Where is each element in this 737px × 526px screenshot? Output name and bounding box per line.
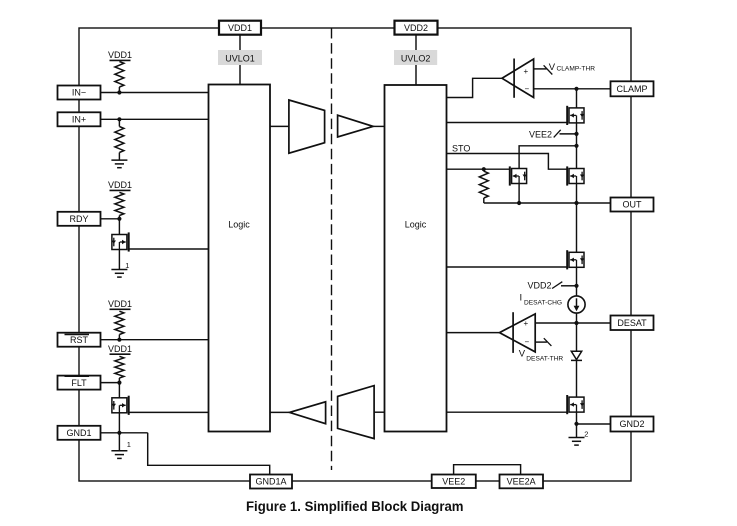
- comparator U3 (CLAMP): [502, 59, 534, 98]
- svg-text:1: 1: [127, 440, 131, 449]
- logic block U2: [385, 85, 447, 432]
- wire desat comparator output: [447, 332, 500, 334]
- svg-text:VEE2: VEE2: [529, 130, 552, 140]
- pin OUT: [611, 198, 654, 212]
- wire Q5 drain: [576, 146, 578, 169]
- wire diode to Q7 drain: [576, 360, 578, 397]
- svg-text:VDD1: VDD1: [108, 299, 132, 309]
- svg-text:UVLO2: UVLO2: [401, 53, 431, 63]
- junction R6 top node: [482, 167, 486, 171]
- pin RST (active low): [58, 333, 101, 347]
- resistor R3 (RDY pull-up): [115, 192, 124, 215]
- V CLAMP-THR threshold tick: [544, 65, 553, 74]
- resistor R6 (STO): [479, 171, 488, 198]
- pin IN-: [58, 86, 101, 100]
- svg-text:V: V: [549, 62, 556, 73]
- junction DESAT node: [574, 321, 578, 325]
- label V DESAT-THR: [519, 348, 564, 362]
- wire Q3 gate from logic: [447, 122, 568, 124]
- comparator U4 (DESAT): [500, 312, 536, 353]
- wire clamp + input: [534, 68, 547, 70]
- outer frame: [79, 28, 631, 481]
- transistor Q4 (STO left): [510, 166, 527, 185]
- junction GND1 node: [117, 431, 121, 435]
- pin GND1: [58, 426, 101, 440]
- junction Q4 source node: [517, 201, 521, 205]
- svg-text:IN+: IN+: [72, 115, 86, 125]
- wire STO to Q5 gate: [447, 154, 568, 170]
- buffer A2 (forward RX triangle): [338, 115, 374, 137]
- wire logic1 to TX1: [270, 125, 289, 127]
- svg-text:GND1: GND1: [66, 428, 91, 438]
- pin IN+: [58, 112, 101, 126]
- wire RX1 to logic2: [373, 125, 384, 127]
- wire VEE2 tap: [560, 133, 577, 135]
- wire DESAT row: [535, 322, 610, 324]
- transistor Q5 (STO right): [567, 166, 584, 185]
- wire Q7 source to GND2 node: [576, 412, 578, 424]
- wire Q2 gate to logic: [129, 411, 209, 413]
- label I DESAT-CHG: [520, 293, 562, 307]
- wire R1 to IN- node: [118, 87, 120, 93]
- svg-text:DESAT: DESAT: [617, 318, 647, 328]
- svg-text:2: 2: [584, 430, 588, 439]
- transistor Q3 (Miller clamp): [567, 106, 584, 125]
- current source I DESAT-CHG: [568, 296, 585, 313]
- wire Q6 gate from logic: [447, 266, 568, 268]
- wire Q5 source: [576, 184, 578, 204]
- wire RX2 to logic1: [270, 411, 290, 413]
- isolation barrier (dashed): [331, 28, 333, 470]
- wire GND1 node: [101, 433, 148, 451]
- wire R6 leads: [483, 169, 485, 203]
- wire Q1 drain: [118, 219, 120, 235]
- wire IN+ to logic: [101, 118, 209, 120]
- svg-text:IN−: IN−: [72, 88, 86, 98]
- net VDD2 tap: [528, 281, 563, 291]
- svg-text:Figure 1. Simplified Block Dia: Figure 1. Simplified Block Diagram: [246, 498, 464, 514]
- pin FLT (active low): [58, 376, 101, 390]
- VDD1 rail (RST pull-up): [108, 299, 132, 310]
- svg-text:1: 1: [125, 261, 129, 270]
- pin DESAT: [611, 316, 654, 331]
- resistor R4 (RST pull-up): [115, 311, 124, 334]
- wire Q7 gate from logic: [447, 411, 568, 413]
- pin GND1A: [250, 475, 292, 489]
- wire IN- to logic: [101, 92, 209, 94]
- wire GND2 row: [577, 423, 611, 425]
- svg-text:VEE2: VEE2: [442, 476, 465, 486]
- svg-text:CLAMP: CLAMP: [616, 84, 647, 94]
- junction Q4 drain node: [574, 144, 578, 148]
- svg-text:VDD1: VDD1: [108, 344, 132, 354]
- wire R3 to RDY node: [118, 216, 120, 219]
- wire OUT rail: [484, 202, 611, 204]
- svg-text:Logic: Logic: [405, 220, 427, 230]
- wire current source to DESAT node: [576, 313, 578, 323]
- wire Q2 drain: [118, 383, 120, 398]
- transistor Q1 (RDY open-drain): [112, 232, 129, 251]
- buffer A3 (feedback TX trapezoid): [338, 386, 375, 439]
- wire Q3 source to VEE2 node: [576, 123, 578, 146]
- wire R5 to FLT node: [118, 378, 120, 383]
- wire desat - input: [535, 341, 547, 343]
- pin GND2: [611, 417, 654, 432]
- svg-text:VDD2: VDD2: [528, 281, 552, 291]
- diode D1 (DESAT blanking): [571, 351, 582, 360]
- wire GND1 to GND1A: [148, 433, 270, 475]
- wire spine to Q6 drain: [576, 203, 578, 252]
- svg-text:VDD2: VDD2: [404, 23, 428, 33]
- svg-text:UVLO1: UVLO1: [225, 53, 255, 63]
- wire clamp - to CLAMP pin: [534, 88, 611, 90]
- wire RST to logic: [101, 339, 209, 341]
- transistor Q2 (FLT open-drain): [112, 396, 129, 415]
- svg-text:RST: RST: [70, 335, 89, 345]
- wire R2 leads: [118, 119, 120, 160]
- wire RDY to node: [101, 218, 120, 220]
- junction FLT node: [117, 381, 121, 385]
- VDD1 rail (RDY pull-up): [108, 180, 132, 191]
- svg-text:VDD1: VDD1: [108, 50, 132, 60]
- ground 1 (RDY source): [111, 270, 127, 278]
- wire VDD2 to UVLO2 to logic: [415, 35, 417, 85]
- svg-text:CLAMP-THR: CLAMP-THR: [557, 65, 596, 72]
- wire Q1 gate to logic: [129, 248, 209, 250]
- wire VDD1 to UVLO1 to logic: [239, 35, 241, 85]
- svg-text:VEE2A: VEE2A: [507, 477, 536, 487]
- pin VDD2: [395, 21, 438, 35]
- buffer A4 (feedback RX triangle): [290, 402, 326, 424]
- transistor Q7 (DESAT discharge): [567, 395, 584, 414]
- junction RST node: [117, 338, 121, 342]
- wire logic2 to TX2: [374, 411, 384, 413]
- svg-text:FLT: FLT: [71, 378, 87, 388]
- wire Q6 source to VDD2 node: [576, 267, 578, 296]
- transistor Q6 (OUT pull-down): [567, 250, 584, 269]
- buffer A1 (forward TX trapezoid): [289, 100, 325, 153]
- resistor R5 (FLT pull-up): [115, 356, 124, 378]
- svg-text:STO: STO: [452, 143, 470, 153]
- wire GND2 node to ground: [576, 424, 578, 438]
- wire VEE2 to VEE2A bridge: [454, 465, 521, 475]
- svg-text:GND2: GND2: [619, 419, 644, 429]
- svg-text:VDD1: VDD1: [228, 23, 252, 33]
- wire VDD2 tap: [561, 285, 577, 287]
- VDD1 rail (IN- pull-up): [108, 50, 132, 60]
- svg-text:DESAT-THR: DESAT-THR: [526, 355, 563, 362]
- wire Q1 source: [118, 250, 120, 270]
- FLT overline: [65, 375, 90, 377]
- svg-text:−: −: [525, 338, 530, 347]
- svg-text:V: V: [519, 348, 526, 359]
- pin VDD1: [219, 21, 261, 35]
- pin RDY: [58, 212, 101, 226]
- resistor R1 (IN- pull-up): [115, 62, 124, 88]
- wire Q3 drain: [576, 89, 578, 108]
- wire R4 to RST node: [118, 335, 120, 340]
- svg-text:GND1A: GND1A: [255, 477, 286, 487]
- junction VEE2 node: [574, 132, 578, 136]
- svg-text:+: +: [524, 67, 529, 76]
- logic block U1: [209, 85, 271, 432]
- svg-text:+: +: [524, 319, 529, 328]
- wire node to Q4 drain: [519, 146, 576, 169]
- RST overline: [65, 334, 90, 336]
- ground 1 (GND1 pin): [111, 451, 127, 459]
- label V CLAMP-THR: [549, 62, 595, 73]
- wire clamp comparator output: [447, 78, 503, 97]
- junction VDD2 node: [574, 284, 578, 288]
- junction OUT node: [574, 201, 578, 205]
- svg-text:Logic: Logic: [228, 220, 250, 230]
- wire Q4 gate from logic: [447, 168, 510, 170]
- junction IN- node: [117, 90, 121, 94]
- wire Q4 source: [518, 184, 520, 204]
- ground 2 (GND2 pin): [569, 438, 585, 446]
- net VEE2 tap: [529, 130, 561, 140]
- UVLO1 block: [218, 50, 262, 65]
- UVLO2 block: [394, 50, 437, 65]
- wire Q2 source: [118, 413, 120, 433]
- pin CLAMP: [611, 81, 654, 96]
- junction IN+ node: [117, 117, 121, 121]
- svg-text:−: −: [525, 85, 530, 94]
- svg-text:I: I: [520, 293, 523, 304]
- ground (IN+ pull-down): [111, 160, 127, 168]
- svg-text:RDY: RDY: [69, 214, 88, 224]
- resistor R2 (IN+ pull-down): [115, 127, 124, 153]
- VDD1 rail (FLT pull-up): [108, 344, 132, 354]
- comparator U3 input signs: [524, 67, 530, 94]
- junction CLAMP node: [574, 87, 578, 91]
- svg-text:OUT: OUT: [623, 200, 643, 210]
- wire DESAT node to diode: [576, 323, 578, 351]
- svg-text:VDD1: VDD1: [108, 180, 132, 190]
- wire FLT to node: [101, 382, 120, 384]
- junction RDY node: [117, 217, 121, 221]
- svg-text:DESAT-CHG: DESAT-CHG: [524, 300, 562, 307]
- pin VEE2A: [500, 475, 544, 489]
- pin VEE2: [432, 475, 476, 489]
- V DESAT-THR threshold tick: [544, 338, 552, 346]
- junction GND2 node: [574, 422, 578, 426]
- comparator U4 input signs: [524, 319, 530, 347]
